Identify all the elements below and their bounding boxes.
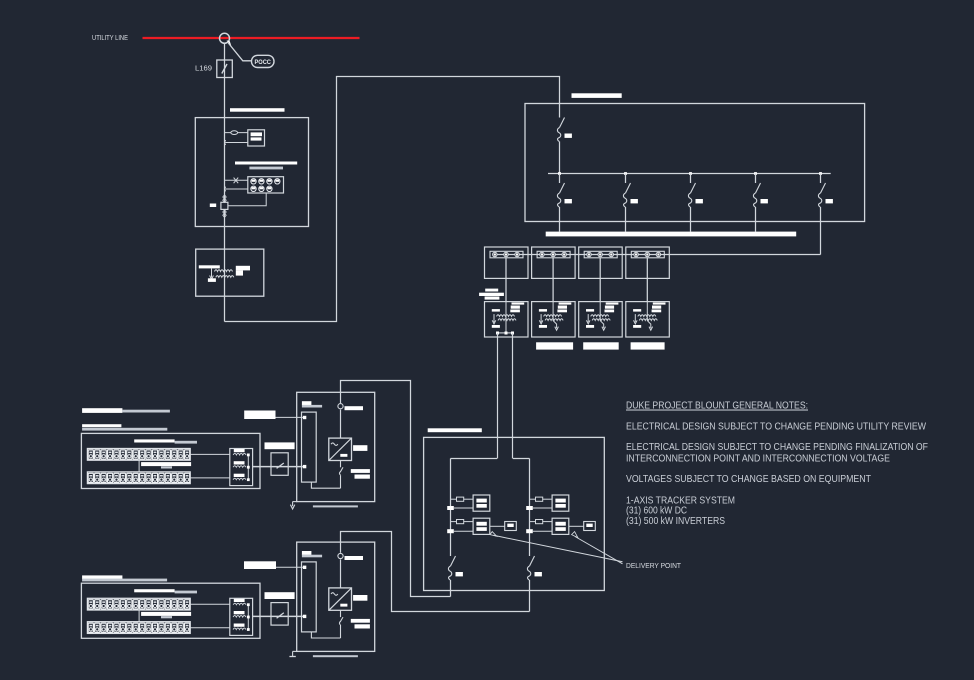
svg-text:POCC: POCC xyxy=(254,59,271,66)
svg-text:L169: L169 xyxy=(195,66,212,73)
svg-text:DELIVERY POINT: DELIVERY POINT xyxy=(626,561,682,570)
svg-text:ELECTRICAL DESIGN SUBJECT TO C: ELECTRICAL DESIGN SUBJECT TO CHANGE PEND… xyxy=(626,442,928,453)
svg-text:INTERCONNECTION POINT AND INTE: INTERCONNECTION POINT AND INTERCONNECTIO… xyxy=(626,454,890,465)
svg-text:(31) 500 kW INVERTERS: (31) 500 kW INVERTERS xyxy=(626,516,725,527)
svg-text:VOLTAGES SUBJECT TO CHANGE BAS: VOLTAGES SUBJECT TO CHANGE BASED ON EQUI… xyxy=(626,474,871,485)
svg-text:DUKE PROJECT BLOUNT GENERAL NO: DUKE PROJECT BLOUNT GENERAL NOTES: xyxy=(626,401,808,412)
svg-text:UTILITY LINE: UTILITY LINE xyxy=(92,33,128,42)
svg-text:ELECTRICAL DESIGN SUBJECT TO C: ELECTRICAL DESIGN SUBJECT TO CHANGE PEND… xyxy=(626,422,926,433)
